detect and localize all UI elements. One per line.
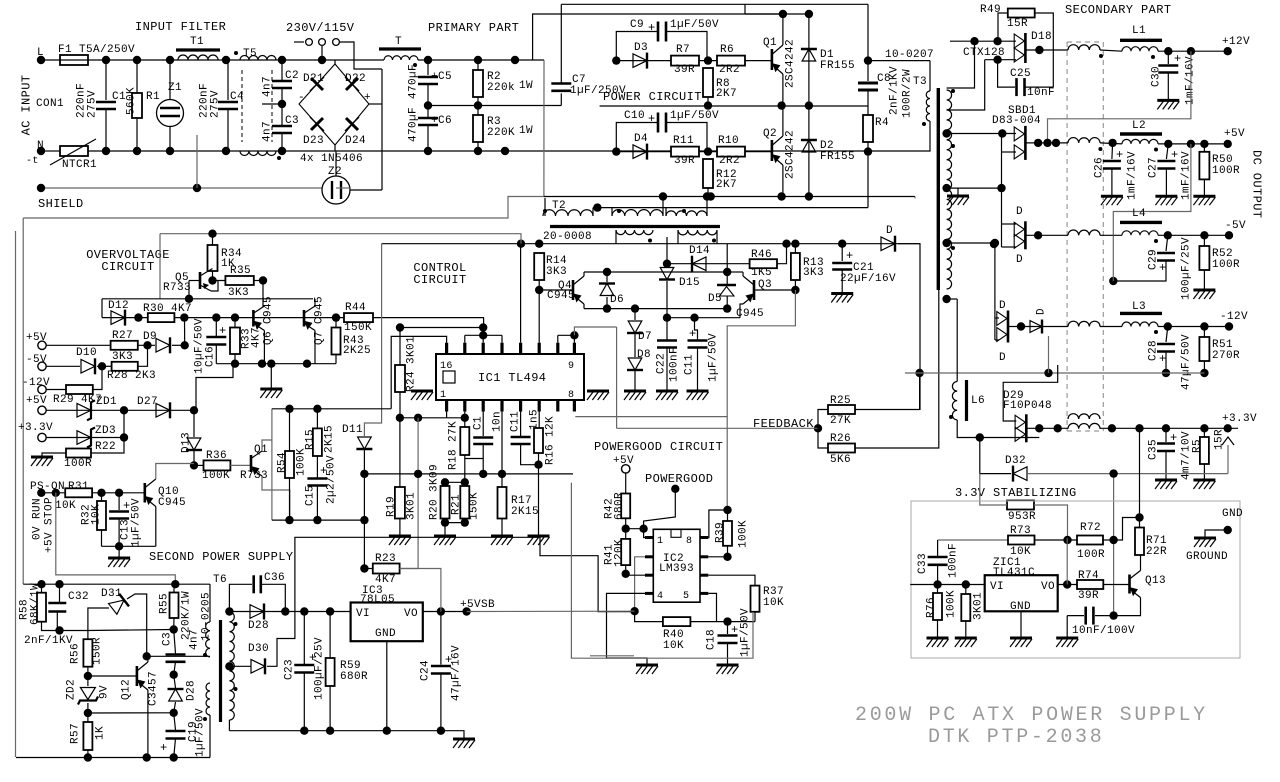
- wire pin6 to R16: [538, 412, 540, 429]
- svg-text:T1: T1: [190, 36, 204, 48]
- wire zic input: [910, 584, 985, 586]
- wire 5vsb to powergood: [467, 610, 635, 612]
- wire T3 primary top lead: [929, 61, 931, 91]
- wire R40 out: [690, 621, 755, 623]
- wire L3 in: [1100, 326, 1122, 328]
- wire R74 out: [1103, 584, 1129, 586]
- svg-text:ZD3: ZD3: [95, 425, 116, 437]
- wire Q1b collector: [262, 440, 272, 451]
- wire R26 out: [855, 290, 939, 448]
- wire R51 top: [1203, 327, 1205, 338]
- wire C23 bottom: [303, 673, 305, 731]
- wire R59 top: [329, 612, 331, 659]
- svg-text:D30: D30: [248, 643, 269, 655]
- junction: [603, 304, 611, 312]
- junction: [990, 240, 998, 248]
- junction: [281, 607, 289, 615]
- resistor R3: [473, 115, 483, 142]
- diode D6: [600, 284, 614, 296]
- junction: [535, 286, 543, 294]
- junction: [193, 184, 201, 192]
- junction: [285, 516, 293, 524]
- wire tap drop 2: [947, 60, 985, 110]
- svg-text:10K: 10K: [55, 500, 76, 512]
- svg-text:4n7: 4n7: [189, 629, 201, 650]
- diode D single -12V: [1030, 321, 1042, 333]
- diode D5: [717, 284, 736, 286]
- ground: [411, 390, 433, 393]
- svg-text:-5V: -5V: [1225, 220, 1246, 232]
- junction: [1200, 231, 1208, 239]
- wire R54 top: [289, 409, 291, 451]
- junction: [915, 369, 923, 377]
- ground: [624, 390, 646, 393]
- wire C6 leads: [427, 106, 429, 119]
- svg-text:-12V: -12V: [1220, 311, 1248, 323]
- wire N to NTCR1: [45, 150, 60, 152]
- inductor L4: [1122, 231, 1158, 236]
- wire pins 10-9 tie: [558, 334, 575, 336]
- wire -5V lead: [46, 365, 80, 367]
- junction: [511, 56, 519, 64]
- svg-text:3.3V STABILIZING: 3.3V STABILIZING: [955, 486, 1077, 500]
- junction: [723, 617, 731, 625]
- junction: [1200, 369, 1208, 377]
- junction: [170, 753, 178, 761]
- ground: [1010, 637, 1032, 640]
- wire D1 vertical: [808, 14, 810, 106]
- svg-text:D: D: [999, 300, 1006, 312]
- wire C33 bottom: [937, 565, 939, 585]
- wire IC2 pin2: [635, 557, 645, 611]
- wire pins 1-2 tie: [400, 417, 465, 419]
- junction: [517, 240, 525, 248]
- svg-text:1: 1: [440, 390, 446, 401]
- IC1 bottom pin 8: [573, 400, 576, 412]
- wire power rail end drop: [914, 197, 916, 199]
- svg-text:C36: C36: [264, 572, 285, 584]
- wire inner box left: [22, 218, 24, 584]
- svg-text:D13: D13: [181, 432, 193, 453]
- svg-text:R56: R56: [70, 643, 82, 664]
- svg-text:150R: 150R: [92, 637, 104, 665]
- wire L4 in: [1100, 234, 1122, 236]
- junction: [360, 564, 368, 572]
- junction: [360, 470, 368, 478]
- wire C36 out: [262, 584, 286, 611]
- resistor R76: [933, 593, 942, 620]
- svg-text:100K: 100K: [202, 470, 230, 482]
- junction: [1164, 47, 1172, 55]
- wire R22 to gnd: [42, 453, 66, 457]
- wire Q3 collector link: [727, 271, 743, 273]
- wire R23 riser: [400, 418, 419, 569]
- IC2 left pin: [645, 555, 653, 558]
- junction: [622, 570, 630, 578]
- wire switch right leg: [340, 42, 382, 69]
- junction: [424, 101, 432, 109]
- wire R55 top: [173, 584, 175, 592]
- junction: [222, 56, 230, 64]
- svg-text:F10P048: F10P048: [1003, 400, 1052, 412]
- wire pin15 riser: [464, 335, 466, 342]
- wire top AC rail: [88, 59, 384, 61]
- svg-text:R733: R733: [240, 470, 268, 482]
- wire L6 bottom: [957, 420, 1039, 438]
- junction: [593, 203, 601, 211]
- svg-text:4: 4: [657, 591, 663, 602]
- svg-text:D18: D18: [1031, 31, 1052, 43]
- capacitor C24: [431, 665, 451, 668]
- wire -12v upper anode: [995, 317, 999, 319]
- wire sbd1 upper anode: [947, 133, 1016, 135]
- wire 5vsb return rail: [229, 730, 455, 732]
- wire D7-D8 link: [634, 334, 636, 357]
- terminal +3.3V: [38, 433, 46, 441]
- wire gnd stub Q6: [270, 364, 272, 389]
- wire R27 to D9: [138, 344, 155, 346]
- wire -5V rail: [1158, 234, 1229, 236]
- svg-text:SECOND POWER SUPPLY: SECOND POWER SUPPLY: [149, 550, 293, 564]
- svg-text:R24 3K01: R24 3K01: [406, 336, 418, 392]
- wire return bus 373: [905, 372, 1204, 374]
- svg-text:D6: D6: [610, 294, 624, 306]
- svg-text:R23: R23: [375, 553, 396, 565]
- wire R32 bottom: [101, 530, 103, 546]
- wire T2 C right up: [706, 198, 708, 216]
- wire R1 bottom lead: [136, 118, 138, 151]
- wire R75 bottom: [965, 621, 967, 638]
- transistor Q2: [771, 140, 774, 161]
- wire C13 top: [118, 493, 120, 510]
- wire C13 bottom: [118, 519, 120, 547]
- svg-text:3K01: 3K01: [406, 492, 418, 520]
- svg-text:C9: C9: [630, 19, 644, 31]
- wire R12 bottom lead: [707, 188, 709, 197]
- svg-text:+: +: [648, 21, 656, 35]
- svg-text:D10: D10: [76, 347, 97, 359]
- svg-text:R74: R74: [1078, 570, 1099, 582]
- svg-text:PRIMARY PART: PRIMARY PART: [428, 21, 519, 35]
- svg-text:10nF/100V: 10nF/100V: [1072, 625, 1135, 637]
- svg-text:10K: 10K: [763, 597, 784, 609]
- svg-text:5K6: 5K6: [830, 454, 851, 466]
- IC IC1 TL494 body: [436, 354, 584, 400]
- junction: [942, 295, 950, 303]
- wire C28 bottom: [1165, 352, 1167, 374]
- junction: [791, 240, 799, 248]
- svg-text:4n7: 4n7: [262, 76, 274, 97]
- resistor R44: [344, 313, 373, 322]
- wire D18 lower anode: [985, 59, 1016, 61]
- capacitor C15: [307, 477, 327, 480]
- wire C7 top to top rail: [560, 4, 562, 83]
- wire L to fuse: [41, 59, 60, 61]
- transformer T2 winding D: [616, 230, 653, 235]
- wire C16 top lead: [215, 318, 217, 336]
- capacitor C10: [657, 113, 660, 133]
- svg-text:C11: C11: [684, 354, 696, 375]
- svg-text:PS-ON: PS-ON: [30, 481, 65, 493]
- capacitor C9: [657, 22, 660, 42]
- wire D8 bottom lead: [634, 371, 636, 391]
- junction: [190, 461, 198, 469]
- capacitor C11: [688, 339, 708, 342]
- node N terminal: [37, 147, 45, 155]
- svg-text:D14: D14: [689, 245, 710, 257]
- transistor Q4: [572, 280, 575, 300]
- diode D22: [345, 77, 359, 91]
- junction: [225, 607, 233, 615]
- wire cap left: [1067, 615, 1084, 617]
- resistor R74: [1077, 580, 1103, 589]
- wire Q1b emitter: [262, 476, 290, 520]
- junction: [791, 286, 799, 294]
- wire earth drop: [196, 135, 198, 188]
- junction: [267, 360, 275, 368]
- svg-text:NTCR1: NTCR1: [62, 159, 97, 171]
- svg-text:D28: D28: [186, 680, 198, 701]
- diode D24: [345, 117, 359, 131]
- wire C2 top lead: [281, 60, 283, 80]
- wire Q5 base: [189, 280, 200, 282]
- svg-text:C33: C33: [917, 553, 929, 574]
- junction: [993, 37, 1001, 45]
- svg-text:3K3: 3K3: [803, 267, 824, 279]
- wire -12V lead: [46, 389, 66, 391]
- wire C19 bottom: [174, 739, 176, 758]
- svg-text:POWERGOOD: POWERGOOD: [645, 472, 713, 486]
- svg-text:SHIELD: SHIELD: [38, 197, 84, 211]
- svg-text:C28: C28: [1148, 340, 1160, 361]
- wire C5 bottom lead: [427, 84, 429, 106]
- transistor Q6: [252, 310, 255, 327]
- wire R16 node gnd: [538, 465, 540, 536]
- wire 5vsb rail: [229, 611, 350, 613]
- svg-text:+5V: +5V: [1224, 128, 1245, 140]
- svg-text:8: 8: [568, 390, 574, 401]
- inductor L2: [1122, 139, 1158, 144]
- svg-text:CIRCUIT: CIRCUIT: [101, 260, 154, 274]
- transformer T2 winding C: [666, 211, 707, 216]
- wire Q12 collector to T6: [147, 655, 210, 657]
- svg-text:27K: 27K: [830, 415, 851, 427]
- svg-text:C18: C18: [706, 629, 718, 650]
- capacitor C1 ic: [473, 436, 493, 439]
- wire ovp rail 318: [102, 317, 484, 319]
- junction: [303, 360, 311, 368]
- svg-text:R16 12K: R16 12K: [545, 416, 557, 465]
- junction: [777, 192, 785, 200]
- diode D3: [633, 54, 647, 68]
- zener ZD2: [80, 688, 95, 700]
- wire pg box left: [616, 327, 618, 428]
- junction: [1187, 47, 1195, 55]
- wire -12V rail: [1158, 326, 1229, 328]
- junction: [461, 478, 469, 486]
- bridge rectifier outline: [299, 64, 369, 145]
- wire Q3 base to R13: [754, 289, 795, 291]
- wire C26 bottom: [1111, 169, 1113, 197]
- wire R36 row: [194, 464, 204, 466]
- svg-text:C32: C32: [68, 591, 89, 603]
- IC2 right pin: [700, 555, 708, 558]
- resistor R14: [534, 253, 544, 280]
- svg-text:F1 T5A/250V: F1 T5A/250V: [58, 44, 135, 56]
- resistor R953: [1007, 501, 1034, 510]
- diode D1: [802, 49, 816, 61]
- resistor R20: [441, 486, 450, 519]
- ground: [717, 664, 739, 667]
- varistor Z1: [157, 100, 184, 127]
- svg-text:D: D: [886, 225, 893, 237]
- wire R42 top: [625, 473, 627, 494]
- junction: [313, 405, 321, 413]
- svg-text:470µF: 470µF: [408, 64, 420, 99]
- wire D to 3.3V drop: [898, 244, 920, 410]
- svg-text:R39: R39: [715, 522, 727, 543]
- ground: [1155, 479, 1177, 482]
- wire D4 row: [616, 151, 772, 153]
- junction: [723, 268, 731, 276]
- svg-text:Q1: Q1: [254, 444, 268, 456]
- junction: [1052, 139, 1060, 147]
- wire R76 bottom: [937, 620, 939, 638]
- junction: [1109, 469, 1117, 477]
- wire D2 vertical: [808, 106, 810, 197]
- wire D28b bottom: [174, 702, 176, 713]
- svg-text:D27: D27: [137, 396, 158, 408]
- wire plus rail right: [418, 59, 544, 61]
- IC2 right pin: [700, 574, 708, 577]
- junction: [212, 313, 220, 321]
- svg-text:1µF/50V: 1µF/50V: [131, 498, 143, 547]
- inductor winding +12V: [1068, 45, 1100, 50]
- wire R34 rail drop: [159, 234, 161, 299]
- wire R35 right lead: [254, 280, 263, 282]
- wire Q10 emitter: [155, 507, 157, 547]
- svg-text:R6: R6: [720, 44, 734, 56]
- wire D1 top: [745, 13, 809, 15]
- svg-text:R18 27K: R18 27K: [448, 421, 460, 470]
- resistor R27: [111, 341, 138, 350]
- wire -5v upper anode: [1002, 223, 1017, 225]
- junction: [864, 56, 872, 64]
- junction: [933, 580, 941, 588]
- wire bottom AC rail: [88, 150, 428, 152]
- svg-text:10K: 10K: [663, 640, 684, 652]
- svg-text:-t: -t: [26, 156, 39, 167]
- junction: [535, 240, 543, 248]
- wire Z2 top lead: [335, 151, 337, 176]
- wire C29 bottom: [1113, 261, 1166, 282]
- svg-text:R46: R46: [751, 249, 772, 261]
- wire bridge bottom rail: [584, 308, 727, 310]
- wire C9 left lead: [616, 32, 658, 61]
- wire C26 top: [1111, 143, 1114, 159]
- diode D11: [358, 437, 372, 449]
- capacitor C36: [252, 575, 255, 593]
- wire D29 upper anode path: [1003, 365, 1057, 421]
- svg-text:1mF/16V: 1mF/16V: [1127, 151, 1139, 200]
- transformer T3 core: [937, 88, 940, 290]
- junction: [396, 323, 404, 331]
- junction: [1108, 139, 1116, 147]
- wire R75 top: [965, 585, 967, 595]
- resistor R26: [828, 444, 855, 453]
- svg-text:R57: R57: [70, 723, 82, 744]
- svg-text:953R: 953R: [1008, 511, 1036, 523]
- resistor R21: [460, 486, 469, 519]
- junction: [570, 331, 578, 339]
- svg-text:100R: 100R: [1077, 549, 1105, 561]
- wire R24 bottom: [399, 392, 401, 419]
- svg-text:47µF/16V: 47µF/16V: [451, 645, 463, 701]
- wire Q2 emitter: [782, 165, 784, 197]
- wire R39 bottom: [727, 546, 729, 557]
- svg-text:560K: 560K: [126, 87, 138, 115]
- IC2 left pin: [645, 592, 653, 595]
- wire T3 primary bottom lead: [929, 121, 931, 152]
- terminal GND: [1224, 526, 1232, 534]
- diode SBD1: [1024, 126, 1027, 160]
- wire R56 top: [87, 631, 89, 640]
- transistor Q1b: [250, 455, 253, 472]
- diode D28b: [169, 689, 183, 701]
- junction: [360, 516, 368, 524]
- wire D31 out: [127, 594, 147, 656]
- junction: [704, 101, 712, 109]
- svg-text:230V/115V: 230V/115V: [286, 21, 355, 35]
- svg-text:C24: C24: [420, 660, 432, 681]
- terminal +3.3V: [1224, 424, 1232, 432]
- wire R3 leads: [477, 106, 479, 116]
- wire rail to pin14: [483, 318, 485, 328]
- wire R15 to C15: [316, 456, 318, 478]
- IC1 top pin 10: [556, 343, 559, 354]
- IC1 bottom pin 7: [556, 400, 559, 412]
- svg-text:ZD1: ZD1: [96, 396, 117, 408]
- svg-text:68K/1W: 68K/1W: [30, 583, 42, 625]
- wire 12V tap wire: [950, 40, 1016, 42]
- svg-text:IC1 TL494: IC1 TL494: [478, 371, 546, 385]
- svg-text:D11: D11: [342, 424, 363, 436]
- resistor R50: [1199, 152, 1209, 180]
- svg-text:Q1: Q1: [763, 37, 777, 49]
- junction: [1034, 231, 1042, 239]
- wire C6 bottom lead: [427, 125, 429, 151]
- svg-text:4n7: 4n7: [262, 121, 274, 142]
- svg-text:100R: 100R: [1212, 259, 1240, 271]
- svg-text:10-0205: 10-0205: [201, 592, 213, 641]
- inductor L3: [1122, 322, 1158, 327]
- IC2 right pin: [700, 536, 708, 539]
- inductor L2 core: [1120, 132, 1162, 135]
- wire -12v anode drop: [994, 243, 996, 340]
- svg-text:220K: 220K: [487, 127, 515, 139]
- svg-text:+: +: [219, 324, 227, 338]
- wire C4 bottom lead: [227, 109, 229, 151]
- junction: [474, 56, 482, 64]
- junction: [976, 433, 984, 441]
- wire shield earth line: [41, 187, 350, 189]
- svg-text:R26: R26: [830, 433, 851, 445]
- capacitor C30: [1158, 64, 1178, 67]
- wire gnd lead: [1205, 530, 1228, 538]
- svg-text:275V: 275V: [210, 90, 222, 118]
- wire pin1 drop: [446, 412, 448, 418]
- svg-text:POWERGOOD CIRCUIT: POWERGOOD CIRCUIT: [594, 440, 723, 454]
